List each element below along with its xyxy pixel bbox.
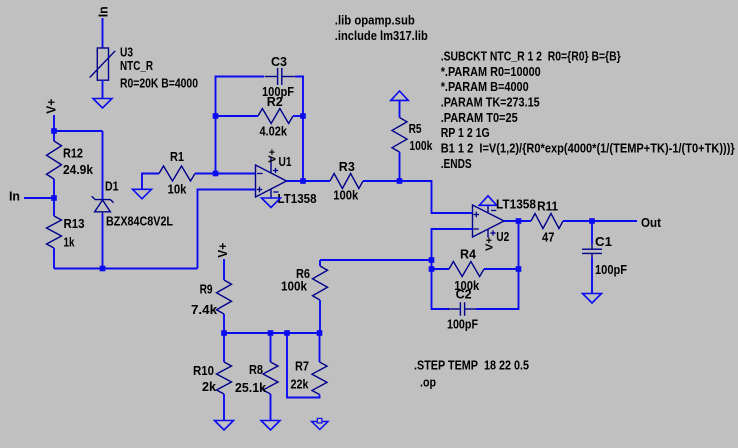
ground (U3) [93,99,112,109]
wire R12 top lead [53,131,55,141]
wire R13 bottom lead [53,248,55,269]
ground (R8) [261,421,280,431]
thermistor U3 body [90,48,116,80]
svg-text:4.02k: 4.02k [260,124,288,139]
wire D1 cathode [102,131,104,200]
node F (R3/R5) [397,178,403,184]
svg-text:R8: R8 [249,362,263,377]
wire node A to D1 top [54,130,103,132]
svg-text:25.1k: 25.1k [235,380,267,395]
resistor R1 [159,166,195,181]
svg-text:100k: 100k [409,138,433,153]
wire R3 to node F [363,180,400,182]
wire R6 top lead [319,260,321,266]
wire R8 to ground [270,394,272,420]
svg-text:1k: 1k [64,235,76,250]
svg-text:R10: R10 [193,363,214,378]
ground (R10) [215,421,234,431]
wire U2 output to R11 [504,220,531,222]
svg-text:100k: 100k [281,279,308,294]
node N (R7 return) [284,330,290,336]
resistor R13 [47,216,62,248]
svg-text:2k: 2k [202,379,217,394]
wire R10 to ground [223,394,225,420]
svg-text:R5: R5 [409,121,422,136]
svg-text:47: 47 [542,230,555,245]
wire C2 to U2 output riser [476,221,519,309]
node E (U1 out) [300,178,306,184]
svg-text:In: In [9,189,20,204]
svg-text:7.4k: 7.4k [191,302,218,317]
wire R1 to U1 inverting input [195,173,256,175]
svg-text:R12: R12 [63,146,83,161]
svg-text:NTC_R: NTC_R [120,58,153,73]
resistor R8 [263,362,278,394]
resistor R4 [449,262,484,277]
svg-text:V+: V+ [44,98,59,113]
wire flag to R5 [399,100,401,117]
svg-text:.op: .op [420,375,436,390]
resistor R6 [313,266,328,300]
node In (R12/R13) [51,195,57,201]
capacitor C2 [447,302,477,316]
svg-text:.lib opamp.sub: .lib opamp.sub [335,13,415,28]
svg-text:.STEP TEMP 18 22 0.5: .STEP TEMP 18 22 0.5 [414,358,529,373]
wire node H to R4 [432,268,450,270]
svg-text:R9: R9 [200,282,213,297]
svg-text:R1: R1 [170,149,184,164]
node D (R2 left) [213,113,219,119]
svg-text:U2: U2 [496,229,509,244]
svg-text:.ENDS: .ENDS [441,156,472,171]
svg-text:100pF: 100pF [447,317,478,332]
svg-text:BZX84C8V2L: BZX84C8V2L [106,214,173,229]
wire U1 output to R3 [287,180,331,182]
wire R12 bottom to R13 top [53,179,55,216]
wire R9 to node row [223,314,225,333]
svg-text:Out: Out [641,215,662,230]
op-amp U1 [256,157,287,198]
wire R7 bottom return to node N [287,333,320,398]
svg-text:R2: R2 [267,94,283,109]
capacitor C3 [265,68,295,85]
svg-text:V+: V+ [484,237,496,251]
svg-text:10k: 10k [168,182,188,197]
wire C3 to output riser [295,77,303,182]
svg-text:24.9k: 24.9k [63,162,94,177]
resistor R3 [330,174,363,189]
resistor R5 [392,118,407,153]
svg-text:R3: R3 [339,159,355,174]
resistor R7 [312,362,327,395]
node K (C1/Out) [589,218,595,224]
node H (R4 left) [429,266,435,272]
wire R2 to node C [293,115,303,117]
node J (U2 out) [516,218,522,224]
svg-text:.include lm317.lib: .include lm317.lib [335,28,428,43]
svg-text:In: In [96,6,111,17]
svg-text:R11: R11 [537,199,558,214]
node C (R2 right) [300,113,306,119]
node O (R6/R7) [317,330,323,336]
wire R8 top lead [270,333,272,362]
wire U3 bottom to ground [102,80,104,99]
wire rail up to U1 non-inverting input [198,190,256,269]
ground (U1 V-) [262,198,281,208]
svg-text:R4: R4 [460,247,477,262]
svg-text:RP 1 2 1G: RP 1 2 1G [441,125,490,140]
floating ground (unconnected) [312,422,328,430]
svg-text:B1 1 2 I=V(1,2)/{R0*exp(4000*: B1 1 2 I=V(1,2)/{R0*exp(4000*(1/(TEMP+TK… [441,141,735,156]
svg-text:.SUBCKT NTC_R 1 2 R0={R0} B={: .SUBCKT NTC_R 1 2 R0={R0} B={B} [441,48,621,63]
svg-text:R0=20K B=4000: R0=20K B=4000 [120,76,198,91]
node B (R1/U1-/feedback) [213,171,219,177]
node I (R4 right) [516,266,522,272]
wire ground to R1 [142,174,159,190]
wire node F to U2 non-inverting input [400,181,473,213]
svg-text:R13: R13 [64,216,85,231]
svg-text:LT1358: LT1358 [278,191,317,206]
node M (R8) [268,330,274,336]
wire C1 to ground [591,258,593,294]
zener diode D1 [92,196,114,214]
svg-text:U1: U1 [279,154,292,169]
svg-text:C3: C3 [271,54,287,69]
node D1 anode / rail [100,266,106,272]
wire R4 to right riser [484,268,519,270]
wire node row [224,332,320,334]
resistor R9 [217,280,232,314]
wire U2 inverting runner to C2 [432,229,473,309]
wire R5 to node F [399,152,401,181]
wire node K to C1 [591,221,593,244]
wire R6 bottom to node row [319,300,321,333]
ground (C1) [583,294,602,304]
wire D1 anode to rail [102,214,104,269]
svg-text:*.PARAM R0=10000: *.PARAM R0=10000 [441,64,541,79]
wire bottom rail [54,268,198,270]
wire R10 top lead [223,333,225,362]
ground (U2 V-, inverted) [479,196,497,206]
svg-text:D1: D1 [105,179,119,194]
wire In to U3 top [102,18,104,48]
ground (R1) [133,189,152,199]
svg-text:C1: C1 [595,234,612,249]
node A (V+/R12/D1) [51,128,57,134]
svg-text:R7: R7 [295,359,309,374]
wire V+ to R9 [223,259,225,280]
capacitor C1 [582,243,602,259]
svg-text:22k: 22k [291,377,310,392]
wire In port to node [24,197,54,199]
node G (R6) [429,257,435,263]
wire node D to R2 [216,115,259,117]
wire R11 to Out [563,220,637,222]
svg-text:V+: V+ [267,149,279,163]
power flag (R5 top) [391,91,409,100]
node L (R9/R10) [221,330,227,336]
resistor R10 [217,362,232,394]
op-amp U2 [473,205,505,238]
svg-text:LT1358: LT1358 [496,197,536,212]
resistor R11 [531,214,563,229]
svg-text:100pF: 100pF [595,262,627,277]
svg-text:.PARAM T0=25: .PARAM T0=25 [441,110,518,125]
svg-text:V+: V+ [215,242,230,257]
svg-text:.PARAM TK=273.15: .PARAM TK=273.15 [441,94,540,109]
svg-text:100k: 100k [333,188,359,203]
svg-text:*.PARAM B=4000: *.PARAM B=4000 [441,79,529,94]
svg-text:C2: C2 [456,287,472,302]
wire R7 top lead [319,333,321,362]
resistor R12 [47,141,62,179]
wire V+ to node A [53,115,55,131]
wire R6 to node G [320,259,432,261]
resistor R2 [258,109,293,124]
wire node B up to C3 [216,77,265,174]
